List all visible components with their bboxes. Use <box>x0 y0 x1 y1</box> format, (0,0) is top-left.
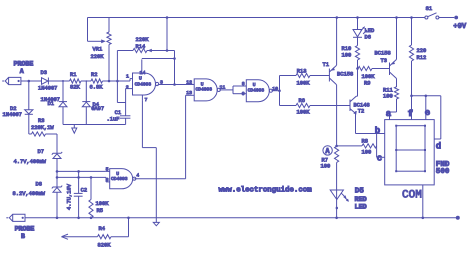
potentiometer R4 <box>62 218 129 240</box>
svg-text:R8: R8 <box>362 139 368 145</box>
svg-text:7: 7 <box>145 97 148 103</box>
label D8 8.2V 400mW <box>13 191 46 197</box>
svg-text:+9V: +9V <box>453 23 467 31</box>
pin 8 label <box>242 81 245 87</box>
label R11 100 <box>383 88 393 100</box>
wire C2 to rail <box>77 196 80 219</box>
LED D5 <box>330 163 349 218</box>
label R12 220 <box>417 48 427 61</box>
wire b line <box>356 133 385 135</box>
svg-text:R2: R2 <box>91 72 97 78</box>
wire e d feed <box>412 95 441 98</box>
meter A <box>323 146 332 156</box>
svg-text:D5: D5 <box>355 187 365 195</box>
wire U1 pin7 to rail <box>142 101 156 223</box>
wire node to pin5 <box>57 170 106 172</box>
svg-text:R1: R1 <box>70 72 76 78</box>
wire pin2 stub <box>126 88 133 90</box>
label R7 100 <box>321 157 331 169</box>
svg-text:R10: R10 <box>342 46 352 52</box>
pin 7 label <box>145 97 148 103</box>
svg-text:13: 13 <box>186 90 192 96</box>
diode D4 <box>82 102 90 107</box>
op-amp U4 CD4093 gate D <box>110 169 136 189</box>
label T2 <box>355 108 365 114</box>
svg-text:R9: R9 <box>364 80 370 86</box>
switch S1 <box>425 6 458 20</box>
wire pins 8-9 tie <box>233 86 246 94</box>
pin 6 stub <box>106 181 110 183</box>
capacitor C1 <box>120 116 130 118</box>
svg-text:e: e <box>425 108 430 118</box>
label c <box>377 153 382 163</box>
junction D4 tap <box>86 80 88 82</box>
label a <box>386 109 392 119</box>
svg-text:S1: S1 <box>426 6 432 12</box>
svg-text:1N4007: 1N4007 <box>3 112 22 118</box>
pin 2 label <box>126 84 129 90</box>
label R6 100K <box>297 98 311 115</box>
svg-text:a: a <box>386 109 392 119</box>
wire U2 pin13 <box>186 95 195 178</box>
svg-text:100K: 100K <box>362 74 376 80</box>
label PROBE A <box>14 61 34 75</box>
resistor R12 <box>409 18 413 120</box>
wire T3 collector <box>396 79 398 88</box>
wire ground line <box>63 124 126 126</box>
svg-text:12: 12 <box>186 80 192 86</box>
label FND 500 <box>436 161 450 176</box>
svg-text:8.2V,400mW: 8.2V,400mW <box>13 191 46 197</box>
pin 4 label <box>136 173 139 179</box>
label T3 BC158 <box>375 51 391 57</box>
label e <box>425 108 430 118</box>
op-amp U2 CD4093 gate B <box>194 79 220 101</box>
svg-text:R7: R7 <box>322 157 328 163</box>
wire D8 to rail <box>56 192 58 218</box>
zener D8 <box>52 186 62 193</box>
label www.electronguide.com <box>219 186 313 194</box>
label COM <box>402 190 422 202</box>
label R9 100K <box>362 74 376 86</box>
wire U1 out to U2 pin12 <box>158 84 195 86</box>
svg-text:100K: 100K <box>297 110 311 116</box>
svg-text:T3: T3 <box>381 58 387 64</box>
svg-text:4.7V,400mW: 4.7V,400mW <box>14 159 47 165</box>
wire R1 to R2 <box>81 80 91 82</box>
svg-text:100K: 100K <box>96 201 110 207</box>
wire node to C2 <box>77 170 80 193</box>
svg-text:VR1: VR1 <box>93 47 103 53</box>
svg-text:820K: 820K <box>98 242 112 248</box>
op-amp U1 CD4093 gate A <box>133 73 159 95</box>
label U2 <box>196 81 213 92</box>
svg-text:A: A <box>20 68 24 75</box>
svg-text:100: 100 <box>383 93 393 99</box>
label R5 100K <box>96 201 110 214</box>
pin 1 label <box>126 74 129 80</box>
label LED D6 <box>365 28 375 41</box>
pin 7 stub U1 <box>141 95 143 101</box>
junction D2 tap <box>28 80 31 83</box>
wire R14 to input node <box>116 51 118 103</box>
junction R12-efd <box>410 95 413 98</box>
svg-text:R6: R6 <box>299 98 305 104</box>
wire to D4 <box>85 81 87 102</box>
wire C1 to gnd line <box>125 118 127 124</box>
label D2 1N4007 <box>3 106 22 118</box>
wire D2 to R3 <box>28 114 30 134</box>
junction R10-R9-T2 <box>356 67 359 70</box>
svg-text:R13: R13 <box>297 69 307 75</box>
wire c line <box>377 156 385 158</box>
label D3 <box>41 70 47 76</box>
label D3 1N4007 <box>38 86 57 92</box>
resistor R6 <box>280 103 351 107</box>
label R1 82K <box>70 72 80 90</box>
label R2 6.8K <box>90 72 104 91</box>
svg-text:R12: R12 <box>417 55 427 61</box>
label +9V <box>453 23 467 31</box>
wire split to R13 R6 <box>278 76 281 106</box>
resistor R14 <box>117 48 174 52</box>
label R10 100 <box>342 46 352 58</box>
wire pin14 stub U1 <box>141 59 143 73</box>
svg-text:B: B <box>21 233 25 240</box>
svg-text:220K: 220K <box>136 37 150 43</box>
diode D1 <box>59 102 67 107</box>
transistor T3 BC158 <box>390 59 397 78</box>
svg-text:2: 2 <box>126 84 129 90</box>
svg-text:100: 100 <box>362 149 372 155</box>
junction T1col-R8 <box>335 145 338 148</box>
label D8 <box>36 182 42 188</box>
junction zener node <box>56 170 59 173</box>
junction rail-D6 <box>356 16 359 19</box>
svg-text:D6: D6 <box>365 34 371 40</box>
label f <box>408 109 413 119</box>
terminal dot bottom right <box>456 216 460 220</box>
wire U2 out <box>219 89 233 91</box>
label C1 .1uF <box>107 110 122 122</box>
svg-text:R14: R14 <box>136 44 146 50</box>
svg-text:100: 100 <box>321 164 331 170</box>
junction rail-T1emitter <box>336 16 339 19</box>
svg-text:LED: LED <box>365 28 375 34</box>
wire T2 emitter down <box>355 114 358 134</box>
svg-text:4: 4 <box>136 173 139 179</box>
svg-text:b: b <box>375 126 380 136</box>
svg-text:D1: D1 <box>48 101 54 107</box>
wire U3 out <box>272 90 280 92</box>
diode D3 <box>42 78 49 85</box>
svg-text:PROBE: PROBE <box>15 225 35 232</box>
svg-text:220K: 220K <box>91 54 105 60</box>
svg-text:R5: R5 <box>97 208 103 214</box>
wire R3 to D7 <box>56 134 58 153</box>
junction feedback tap <box>173 83 176 86</box>
pin 5 label <box>106 167 109 173</box>
display digit <box>395 125 426 173</box>
svg-text:CD4093: CD4093 <box>196 87 213 93</box>
junction COM-rail <box>422 217 425 220</box>
wire R14 feedback <box>142 51 176 85</box>
wire D7 to node <box>56 159 58 188</box>
label VR1 220K <box>91 47 105 60</box>
pin 12 label <box>186 80 192 86</box>
junction D5-rail <box>335 217 338 220</box>
label C2 4.7u 10V <box>67 183 73 210</box>
label D7 <box>38 149 44 155</box>
svg-text:82K: 82K <box>70 84 80 90</box>
wire U4 out <box>134 178 185 180</box>
wire T3 emitter to rail <box>396 18 398 60</box>
label b <box>375 126 380 136</box>
svg-text:PROBE: PROBE <box>14 61 34 68</box>
diode D2 <box>25 110 33 115</box>
label R4 820K <box>98 226 112 248</box>
resistor R5 <box>89 177 93 217</box>
svg-text:220: 220 <box>417 48 427 54</box>
pin 10 label <box>272 86 278 92</box>
svg-text:C2: C2 <box>81 187 87 193</box>
label PROBE B <box>15 225 35 240</box>
junction rail-R14col <box>166 16 169 19</box>
pin 9 label <box>242 91 245 97</box>
pin 14 label <box>140 70 146 76</box>
resistor R3 <box>29 132 57 136</box>
wire top +9V rail <box>88 17 425 19</box>
svg-text:4.7U,10V: 4.7U,10V <box>67 183 73 210</box>
wire rail to R14 <box>166 18 169 52</box>
svg-text:COM: COM <box>402 190 422 202</box>
svg-text:c: c <box>377 153 382 163</box>
label C2 <box>81 187 87 193</box>
wire probe A to D3 <box>21 80 42 82</box>
svg-text:100: 100 <box>342 52 352 58</box>
probe B <box>6 214 25 221</box>
resistor R8 <box>337 144 377 148</box>
wire D3 to R1 <box>48 80 69 82</box>
junction R5-rail <box>90 217 93 220</box>
svg-text:C1: C1 <box>115 110 121 116</box>
svg-text:CD4093: CD4093 <box>248 88 265 94</box>
wire pin6 net <box>56 176 106 182</box>
label LED <box>355 204 367 212</box>
pin 3 label <box>160 79 163 85</box>
svg-text:www.electronguide.com: www.electronguide.com <box>219 186 313 194</box>
svg-text:9: 9 <box>242 91 245 97</box>
svg-text:500: 500 <box>436 168 450 176</box>
ground arrow <box>72 125 77 133</box>
label R8 100 <box>362 139 372 156</box>
capacitor C2 <box>74 193 83 196</box>
wire e pin <box>425 96 427 120</box>
svg-text:d: d <box>436 142 441 152</box>
label T2 BC148 <box>354 102 370 108</box>
svg-text:R3: R3 <box>38 118 44 124</box>
wire to D2 <box>28 81 30 110</box>
resistor R2 <box>91 79 103 83</box>
label D4 0A97 <box>91 102 104 112</box>
label RED <box>355 196 367 204</box>
label T1 BC158 <box>337 72 353 78</box>
wire input node to C1 <box>117 89 125 116</box>
svg-text:T1: T1 <box>323 62 329 68</box>
junction R14-C1 node <box>116 80 119 83</box>
resistor R9 <box>358 66 390 70</box>
label U1 <box>135 75 152 87</box>
svg-text:BC158: BC158 <box>375 51 391 57</box>
wire R2 to U1 pin1 <box>103 79 133 81</box>
svg-text:R4: R4 <box>99 226 105 232</box>
wire D4 to gnd line <box>85 107 87 125</box>
op-amp U3 CD4093 gate C <box>246 80 272 102</box>
svg-text:6.8K: 6.8K <box>90 84 104 90</box>
svg-text:1: 1 <box>126 74 129 80</box>
svg-text:D3: D3 <box>41 70 47 76</box>
svg-text:0A97: 0A97 <box>91 106 104 112</box>
zener D7 <box>52 152 62 159</box>
label R14 220K <box>136 37 150 50</box>
transistor T1 BC158 <box>329 65 336 85</box>
svg-text:U: U <box>139 75 142 81</box>
svg-text:11: 11 <box>220 85 226 91</box>
svg-text:D7: D7 <box>38 149 44 155</box>
junction rail-R12 <box>410 16 413 19</box>
svg-text:CD4093: CD4093 <box>111 176 128 182</box>
svg-text:100K: 100K <box>297 80 311 86</box>
label D7 4.7V 400mW <box>14 159 47 165</box>
svg-text:5: 5 <box>106 167 109 173</box>
label D1 1N4007 <box>41 97 60 107</box>
pin 6 label <box>106 177 109 183</box>
svg-text:D8: D8 <box>36 182 42 188</box>
potentiometer VR1 <box>107 18 111 82</box>
transistor T2 BC148 <box>350 96 356 114</box>
resistor R1 <box>70 79 82 83</box>
wire bc bus <box>376 134 378 158</box>
label d <box>436 142 441 152</box>
pin 11 label <box>220 85 226 91</box>
svg-text:BC158: BC158 <box>337 72 353 78</box>
svg-text:.1uF: .1uF <box>107 117 120 123</box>
label R3 220K,1W <box>31 118 54 131</box>
wire to D1 <box>62 81 64 102</box>
probe A <box>2 77 21 84</box>
label T3 <box>381 58 387 64</box>
label U3 <box>248 82 265 93</box>
svg-text:U: U <box>201 81 204 87</box>
wire T1 emitter to rail <box>336 18 338 66</box>
svg-text:U: U <box>116 171 119 177</box>
junction VR1 bottom <box>108 80 111 83</box>
pin 5 stub <box>106 170 110 172</box>
wire d pin <box>434 96 441 139</box>
wire T1 collector down <box>336 85 338 146</box>
wire T2 collector up <box>356 69 357 97</box>
wire VR1 wiper feed <box>88 18 106 44</box>
svg-text:LED: LED <box>355 204 367 212</box>
label U4 <box>111 171 128 182</box>
svg-text:10: 10 <box>272 86 278 92</box>
svg-text:CD4093: CD4093 <box>135 82 152 88</box>
junction rail-T3emitter <box>395 16 398 19</box>
junction R5 tap <box>90 176 93 179</box>
resistor R10 <box>355 37 359 68</box>
LED D6 <box>353 18 367 38</box>
label D5 <box>355 187 365 195</box>
svg-text:f: f <box>408 109 413 119</box>
label T1 <box>323 62 329 68</box>
wire bottom rail <box>25 217 456 219</box>
svg-text:1N4007: 1N4007 <box>38 86 57 92</box>
resistor R7 <box>335 146 339 162</box>
wire COM pin <box>422 185 424 218</box>
wire D1 to gnd line <box>62 107 64 125</box>
svg-text:U: U <box>253 82 256 88</box>
ground arrow bottom <box>153 222 159 225</box>
display FND500 body <box>385 120 435 185</box>
junction D1 tap <box>62 80 64 82</box>
junction D8-rail <box>56 217 59 220</box>
svg-text:220K,1W: 220K,1W <box>31 125 54 131</box>
resistor R13 <box>280 73 330 77</box>
label R13 100K <box>297 69 311 87</box>
pin 13 label <box>186 90 192 96</box>
resistor R11 <box>390 87 399 120</box>
junction R4-rail <box>127 217 130 220</box>
svg-text:8: 8 <box>242 81 245 87</box>
